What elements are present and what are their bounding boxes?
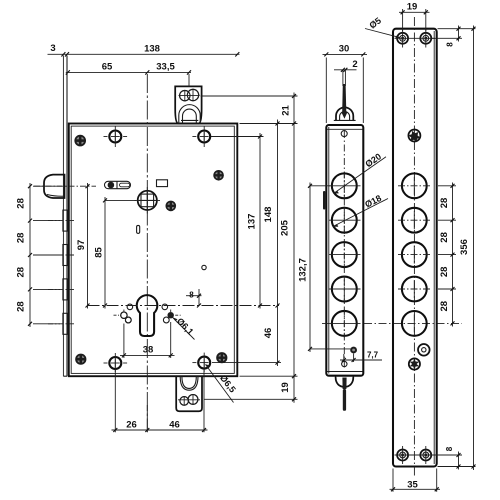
bottom-left cross screw xyxy=(104,353,128,372)
deadbolt circle 3 xyxy=(329,241,361,269)
svg-text:205: 205 xyxy=(280,219,291,236)
leader Ø6,1 xyxy=(172,316,195,340)
bolt tab 2 xyxy=(63,245,68,266)
svg-text:38: 38 xyxy=(143,345,154,356)
svg-text:28: 28 xyxy=(16,301,27,312)
svg-text:28: 28 xyxy=(16,233,27,244)
dim 38 xyxy=(120,322,175,358)
svg-text:97: 97 xyxy=(76,240,87,251)
side hole right of keyhole xyxy=(162,304,168,310)
svg-text:30: 30 xyxy=(339,44,350,55)
dim 35 bottom xyxy=(390,469,441,492)
small hole right xyxy=(202,265,206,269)
small key slot xyxy=(137,225,140,233)
dim 8 (above keyhole) xyxy=(186,289,202,308)
deadbolt circle 4 xyxy=(329,276,361,304)
latch bolt (left, spring bolt) xyxy=(34,175,96,198)
dim 8 bottom xyxy=(432,446,476,469)
side strip left tab xyxy=(323,191,325,210)
top holes horizontal centerline xyxy=(395,37,436,39)
svg-text:28: 28 xyxy=(16,267,27,278)
svg-text:137: 137 xyxy=(247,214,258,230)
strike hole centerline verticals xyxy=(413,177,415,195)
svg-text:2: 2 xyxy=(352,59,357,70)
top latch (auxiliary bolt above body) xyxy=(175,86,201,123)
top-right cross screw xyxy=(192,126,210,147)
bottom holes horizontal centerline xyxy=(395,454,436,456)
bolt tab 3 xyxy=(63,279,68,300)
faceplate left edge lines xyxy=(63,56,67,377)
main vertical centerline xyxy=(146,74,148,432)
svg-text:19: 19 xyxy=(407,2,418,13)
side strip body xyxy=(326,125,363,376)
strike hole 5 xyxy=(402,311,427,336)
shared row-5 centerline to right view xyxy=(364,322,462,324)
top mounting hole right xyxy=(420,30,431,48)
right hook slot xyxy=(163,310,181,323)
pill-shaped stop xyxy=(105,181,131,188)
key needle (top) xyxy=(341,71,347,119)
side hole left of keyhole xyxy=(127,304,133,310)
leader Ø6,5 xyxy=(205,364,238,402)
top latch peanut cam xyxy=(180,90,190,100)
keyhole horizontal centerline xyxy=(88,305,280,307)
deadbolt circle 2 xyxy=(329,207,361,235)
svg-text:8: 8 xyxy=(445,446,454,451)
dim 7,7 xyxy=(340,351,382,363)
svg-text:46: 46 xyxy=(263,328,274,339)
leader Ø20 xyxy=(333,151,386,194)
strip vertical centerline xyxy=(343,131,345,368)
svg-text:65: 65 xyxy=(102,62,113,73)
lock body outer rect xyxy=(69,124,238,377)
small hole near strip top xyxy=(341,131,347,137)
dim 132,7 xyxy=(298,183,352,353)
bottom latch (deadbolt below body) xyxy=(176,376,202,411)
dark rivet top-left xyxy=(74,135,86,147)
ring hole xyxy=(418,344,430,356)
svg-text:35: 35 xyxy=(407,480,418,491)
strike plate inner right line xyxy=(433,31,435,464)
left hook slot xyxy=(114,310,132,323)
svg-text:28: 28 xyxy=(439,267,450,278)
dim 8 top xyxy=(432,26,476,47)
dim 3 / 138 top line xyxy=(48,43,240,57)
bottom hole of strip xyxy=(342,361,347,366)
phillips screw upper xyxy=(407,129,423,145)
svg-text:28: 28 xyxy=(16,198,27,209)
deadbolt circle 1 xyxy=(329,172,361,200)
dim 356 xyxy=(459,26,476,471)
svg-text:8: 8 xyxy=(189,291,194,300)
svg-text:85: 85 xyxy=(94,247,105,258)
dark pin dot xyxy=(350,347,357,354)
strike plate body xyxy=(393,29,437,467)
dim 85 xyxy=(94,197,137,309)
right dim column: 148 / 46 xyxy=(212,120,281,367)
right dim column 28 x4 xyxy=(438,183,456,327)
svg-text:28: 28 xyxy=(439,232,450,243)
dark rivet upper-right xyxy=(213,170,224,181)
svg-text:46: 46 xyxy=(169,420,180,431)
dim 65 / 33,5 line xyxy=(66,62,191,88)
top mounting hole left xyxy=(397,30,408,48)
right dim column: 21 / 205 / 19 xyxy=(201,93,298,403)
dim 2 xyxy=(334,59,358,72)
svg-text:33,5: 33,5 xyxy=(156,62,175,73)
svg-text:138: 138 xyxy=(144,44,160,55)
bottom-right cross screw xyxy=(192,353,210,372)
small rectangular opening xyxy=(157,180,168,187)
lock body inner contour xyxy=(71,126,234,373)
dim 26 / 46 bottom xyxy=(112,368,208,432)
strike hole 2 xyxy=(398,208,431,233)
dark rivet bottom-left xyxy=(75,354,86,365)
svg-text:7,7: 7,7 xyxy=(367,351,379,360)
phillips screw lower xyxy=(409,358,420,369)
strike hole 3 xyxy=(398,242,431,267)
euro cylinder keyhole xyxy=(137,295,158,336)
top-left cross screw xyxy=(104,126,128,147)
left dim column: 28 x4 xyxy=(16,183,63,327)
dim 30 xyxy=(323,44,368,124)
bottom mounting hole right xyxy=(420,446,431,464)
bottom latch peanut cam xyxy=(180,397,189,406)
svg-text:19: 19 xyxy=(280,382,291,393)
dark rivet bottom-right xyxy=(216,352,227,363)
tab centerlines xyxy=(48,221,76,324)
strike hole 1 xyxy=(398,173,431,198)
svg-text:356: 356 xyxy=(459,239,470,255)
svg-text:28: 28 xyxy=(439,301,450,312)
leader Ø18 xyxy=(333,193,388,227)
right dim column: 137 xyxy=(211,133,264,309)
dark rivet center xyxy=(166,201,177,212)
svg-text:132,7: 132,7 xyxy=(298,258,309,282)
dim 97 xyxy=(76,183,90,309)
svg-text:3: 3 xyxy=(50,43,55,54)
top latch arch cut xyxy=(179,105,200,124)
svg-text:8: 8 xyxy=(446,42,455,47)
svg-text:21: 21 xyxy=(281,105,292,116)
dim 19 top xyxy=(399,2,430,32)
bottom latch U cut xyxy=(180,376,198,390)
svg-text:148: 148 xyxy=(263,207,274,223)
bottom mounting hole left xyxy=(397,446,408,464)
follower (square spindle hub) xyxy=(135,187,161,214)
svg-text:28: 28 xyxy=(439,198,450,209)
bolt tab 4 xyxy=(63,313,68,334)
top dome arch xyxy=(334,107,356,120)
leader Ø5 xyxy=(365,15,401,38)
plate vertical centerline xyxy=(413,17,415,478)
svg-text:26: 26 xyxy=(126,420,137,431)
bolt tab 1 xyxy=(63,210,68,231)
deadbolt circle 5 xyxy=(322,310,361,338)
bottom dome + key xyxy=(336,377,354,411)
strike hole 4 xyxy=(398,277,431,302)
side strip inner lines xyxy=(328,127,330,374)
